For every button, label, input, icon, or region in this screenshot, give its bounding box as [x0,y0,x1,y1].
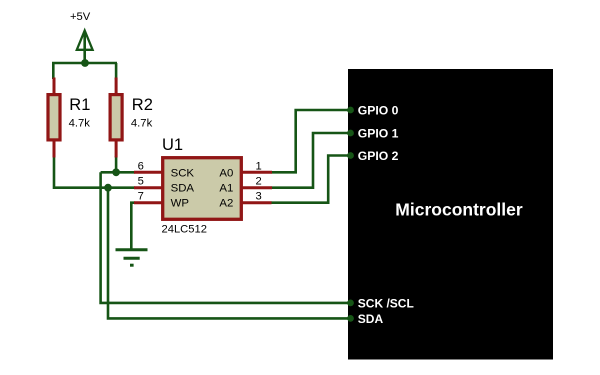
svg-text:2: 2 [255,176,261,188]
svg-text:4.7k: 4.7k [131,118,153,130]
svg-text:4.7k: 4.7k [69,118,91,130]
svg-text:R2: R2 [132,96,153,114]
svg-text:SDA: SDA [171,182,195,194]
svg-text:R1: R1 [69,96,90,114]
svg-text:GPIO 0: GPIO 0 [358,103,399,117]
svg-text:6: 6 [138,160,144,172]
svg-text:A1: A1 [219,182,233,194]
svg-text:U1: U1 [162,136,183,154]
svg-text:1: 1 [255,160,261,172]
svg-text:24LC512: 24LC512 [162,223,207,235]
svg-text:SDA: SDA [358,312,384,326]
svg-text:SCK /SCL: SCK /SCL [358,296,414,310]
svg-text:A2: A2 [219,197,233,209]
svg-text:Microcontroller: Microcontroller [395,199,523,219]
svg-text:GPIO 2: GPIO 2 [358,149,399,163]
svg-text:5: 5 [138,176,144,188]
svg-text:7: 7 [138,191,144,203]
svg-text:+5V: +5V [70,11,91,23]
svg-text:WP: WP [171,197,189,209]
svg-text:3: 3 [255,191,261,203]
svg-text:GPIO 1: GPIO 1 [358,126,399,140]
svg-text:SCK: SCK [171,168,195,180]
svg-text:A0: A0 [219,168,233,180]
